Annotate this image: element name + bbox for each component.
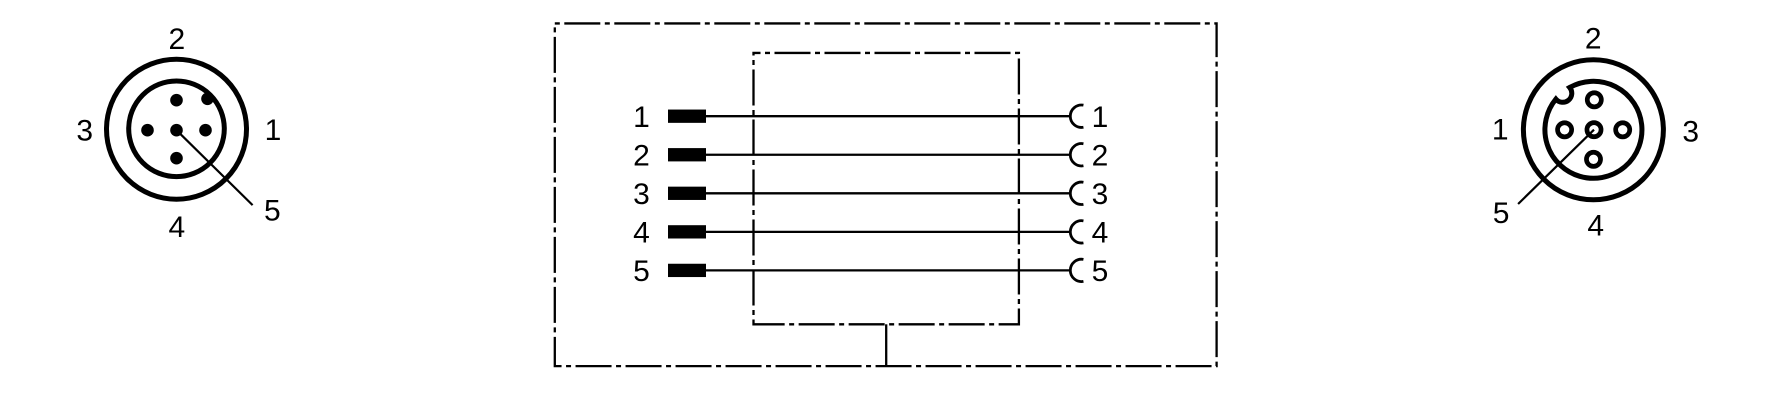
svg-text:1: 1 xyxy=(633,101,650,134)
J1 pin 1 contact xyxy=(199,124,212,137)
J2 socket 1 hole xyxy=(1558,123,1572,137)
wire 3 male pin symbol xyxy=(668,187,706,200)
svg-text:5: 5 xyxy=(264,194,281,227)
svg-text:2: 2 xyxy=(633,139,650,172)
wire 2 female socket symbol xyxy=(1070,144,1083,166)
wire 2 male pin symbol xyxy=(668,148,706,161)
J2 socket 5 leader line xyxy=(1518,130,1594,204)
J1 pin 4 contact xyxy=(170,152,183,165)
connector J2 female face outer circle xyxy=(1523,60,1663,200)
J2 socket 4 hole xyxy=(1586,152,1600,166)
cable assembly boundary box xyxy=(555,23,1217,366)
J2 socket 2 hole xyxy=(1587,93,1601,107)
wire 1 female socket symbol xyxy=(1070,105,1083,127)
wire 5 female socket symbol xyxy=(1070,259,1083,281)
svg-text:2: 2 xyxy=(169,23,186,56)
wire 3 female socket symbol xyxy=(1070,182,1083,204)
J1 pin 2 contact xyxy=(170,94,183,107)
J2 socket 5 hole xyxy=(1587,123,1601,137)
svg-text:3: 3 xyxy=(1682,115,1699,148)
svg-text:4: 4 xyxy=(633,217,650,250)
wire 5 xyxy=(706,269,1069,271)
svg-text:1: 1 xyxy=(1092,101,1109,134)
svg-text:4: 4 xyxy=(169,211,186,244)
wire 5 male pin symbol xyxy=(668,264,706,277)
connector J2 female face inner circle with keyway notch xyxy=(1545,81,1642,178)
inner shield box xyxy=(754,53,1019,324)
svg-text:5: 5 xyxy=(1092,255,1109,288)
svg-text:3: 3 xyxy=(633,178,650,211)
connector J1 male face outer circle xyxy=(107,59,247,199)
wire 4 female socket symbol xyxy=(1070,221,1083,243)
J1 pin 3 contact xyxy=(141,124,154,137)
J2 socket 3 hole xyxy=(1616,123,1630,137)
svg-text:2: 2 xyxy=(1092,139,1109,172)
svg-text:5: 5 xyxy=(1493,197,1510,230)
J1 pin 5 contact xyxy=(170,124,183,137)
svg-text:1: 1 xyxy=(265,114,282,147)
wire 2 xyxy=(706,154,1069,156)
svg-text:4: 4 xyxy=(1587,210,1604,243)
svg-text:2: 2 xyxy=(1585,22,1602,55)
connector J1 male face inner circle xyxy=(129,81,225,177)
wire 3 xyxy=(706,192,1069,194)
svg-text:3: 3 xyxy=(76,115,93,148)
svg-text:1: 1 xyxy=(1492,113,1509,146)
svg-text:4: 4 xyxy=(1092,217,1109,250)
wire 4 xyxy=(706,231,1069,233)
svg-text:3: 3 xyxy=(1092,178,1109,211)
J1 pin 5 leader line xyxy=(177,130,253,205)
wire 4 male pin symbol xyxy=(668,225,706,238)
wire 1 xyxy=(706,115,1069,117)
J1 keying dot xyxy=(201,93,214,106)
svg-text:5: 5 xyxy=(633,255,650,288)
wire 1 male pin symbol xyxy=(668,110,706,123)
shield stub wire xyxy=(885,324,887,366)
